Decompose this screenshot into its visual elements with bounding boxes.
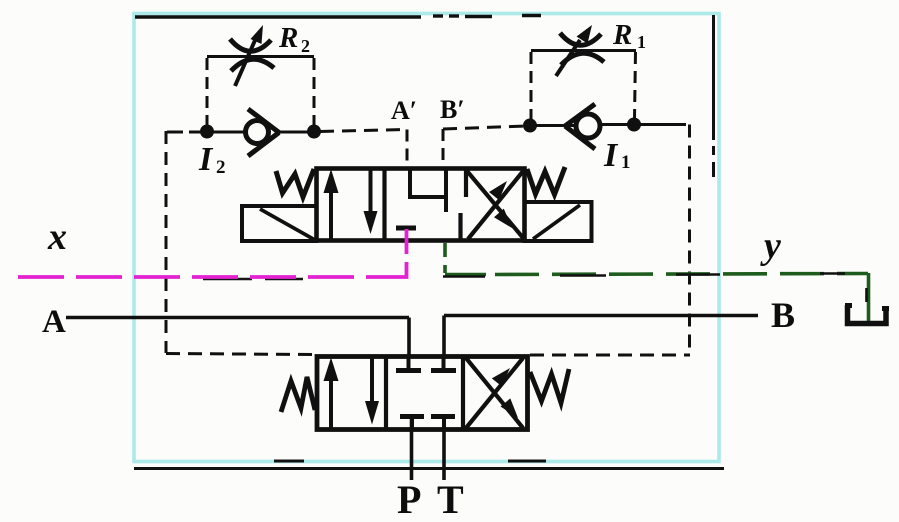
black border overlay bottom [134,461,724,469]
main valve U2 body [317,356,528,430]
black border overlay top [135,16,541,18]
svg-text:R: R [612,19,632,51]
main valve U2 left spring [281,377,315,412]
svg-text:y: y [760,225,781,267]
label R1 [612,19,646,52]
svg-text:T: T [437,477,464,522]
line B [444,316,758,357]
line P [410,418,414,480]
svg-text:P: P [397,477,421,522]
svg-text:B′: B′ [440,95,465,124]
pilot drain dashed rectangle left edge [165,131,168,353]
svg-text:R: R [278,22,298,54]
throttle valve R2 symbol [230,25,274,86]
line T [442,418,446,480]
svg-text:I: I [603,137,619,174]
label R2 [278,22,310,56]
pilot drain dashed rectangle bottom edge [166,354,690,356]
tank symbol [845,305,889,324]
main valve U2 centre blocked ports [396,356,456,430]
main valve U2 left position arrows [324,358,380,430]
svg-text:I: I [198,141,214,178]
svg-text:2: 2 [301,36,310,56]
throttle valve R1 symbol [556,25,604,76]
svg-text:A′: A′ [391,96,417,125]
svg-text:2: 2 [216,157,226,178]
pilot line A' dashed [320,130,407,167]
pilot line y black overdashes [443,274,867,303]
label I1 [603,137,631,174]
black border overlay right [712,15,715,177]
svg-text:x: x [47,216,67,258]
svg-text:1: 1 [637,32,646,52]
throttle valve R2 loop [207,57,314,127]
node I2 left junction [200,125,214,139]
pilot line B' dashed [443,126,526,166]
check valve I2 [246,109,280,156]
svg-text:A: A [42,304,66,340]
pilot valve U1 right position crossed arrows [467,170,524,239]
check valve I1 [565,104,600,149]
main valve U2 right position crossed arrows [466,358,523,428]
wire black under magenta [203,278,303,281]
pilot valve U1 right spring [527,167,565,195]
pilot valve U1 right solenoid [525,202,592,241]
pilot valve U1 left solenoid [242,206,317,241]
svg-text:1: 1 [621,152,631,173]
pilot valve U1 centre position passages [396,168,446,228]
throttle valve R1 loop [531,51,636,121]
main valve U2 right spring [530,369,569,403]
pilot drain dashed rectangle right edge [688,125,691,355]
pilot line x magenta [18,229,407,277]
node I2 right junction [307,125,321,139]
pilot valve U1 left spring [276,169,314,197]
svg-text:B: B [771,295,795,335]
node I1 left junction [523,119,537,133]
node I1 right junction [627,118,641,132]
cyan frame [134,14,719,462]
pilot line y green [445,243,869,322]
label I2 [198,141,226,178]
line A [66,318,409,357]
pilot valve U1 body [317,168,525,241]
pilot valve U1 left position arrows [324,169,378,241]
check valve I2 line with junctions [167,131,316,134]
check valve I1 line with junctions [530,125,686,126]
